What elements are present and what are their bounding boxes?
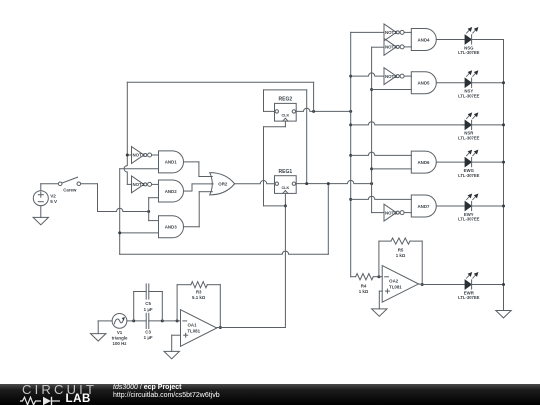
svg-text:C3: C3	[145, 329, 151, 334]
wire OR2 output to REG1 D	[235, 180, 275, 183]
wire Q1 to AND6 input B	[372, 168, 412, 170]
svg-text:R3: R3	[196, 290, 202, 295]
inverter NOT5	[384, 68, 411, 85]
wire Q1 feedback bottom run	[120, 184, 329, 255]
resistor R3 feedback	[177, 282, 220, 328]
OR gate OR2	[210, 173, 235, 195]
footer bar	[0, 384, 540, 405]
resistor R4	[356, 274, 379, 294]
node rail row3	[502, 123, 505, 126]
wire Q1 feedback left bus to AND1/AND3 inputs	[120, 169, 159, 255]
svg-text:NOT1: NOT1	[132, 153, 144, 158]
svg-text:C5: C5	[145, 301, 151, 306]
wire Q1 bus vertical	[372, 47, 384, 212]
svg-text:OR2: OR2	[218, 182, 228, 187]
svg-text:AND3: AND3	[165, 225, 178, 230]
wire CLK branch to REG2	[264, 121, 286, 206]
node C5 branch right	[161, 319, 164, 322]
wire AND3 output to OR2	[184, 192, 213, 227]
svg-text:CLK: CLK	[281, 186, 289, 190]
wire Q2 bus vertical	[351, 32, 384, 276]
AND gate AND7	[411, 195, 436, 217]
wire V1 to ground	[98, 321, 112, 334]
svg-text:100 Hz: 100 Hz	[113, 341, 128, 346]
wire Q2 to AND6 input A	[351, 152, 412, 155]
node rail row4	[502, 161, 505, 164]
svg-text:R5: R5	[398, 248, 404, 253]
svg-text:1 kΩ: 1 kΩ	[396, 253, 406, 258]
node OA1 output	[219, 326, 222, 329]
wire AND1 output to OR2	[184, 162, 213, 177]
svg-text:5.1 kΩ: 5.1 kΩ	[192, 295, 206, 300]
wire Q2 to AND7 input A	[351, 196, 412, 199]
node C5 branch left	[132, 319, 135, 322]
LED EWY	[436, 194, 503, 222]
wire REG1 Q up to REG2 D	[264, 90, 307, 184]
wire OA2 + input to ground	[379, 291, 382, 309]
voltage source V2	[33, 184, 58, 218]
node rail row5	[502, 205, 505, 208]
wire R4 node to OA2	[379, 276, 382, 278]
voltage source V1 triangle 100 Hz	[112, 314, 128, 347]
op-amp OA2	[382, 266, 418, 303]
node R3 branch	[176, 319, 179, 322]
inverter NOT6	[384, 204, 411, 221]
register REG1	[275, 169, 297, 194]
svg-text:AND6: AND6	[418, 160, 431, 165]
wire switch output to AND2/AND3 junction	[98, 184, 149, 212]
node CLK branch	[284, 204, 287, 207]
svg-text:R4: R4	[361, 283, 367, 288]
op-amp OA1	[181, 310, 217, 347]
wire R5 feedback branch	[379, 241, 391, 277]
wire C3 to OA1 - input	[149, 320, 181, 322]
svg-text:REG2: REG2	[279, 97, 293, 103]
LED NSR	[458, 112, 503, 140]
svg-text:TL081: TL081	[187, 328, 200, 333]
svg-text:LTL-307EE: LTL-307EE	[458, 93, 480, 98]
node Q2 bus row3	[349, 123, 352, 126]
svg-text:AND4: AND4	[418, 37, 431, 42]
node REG1 Q to REG2 D riser	[305, 182, 308, 185]
CircuitLab logo text CIRCUIT	[22, 382, 97, 397]
node Q2 bus row2	[349, 75, 352, 78]
wire OA1 + input to ground	[172, 335, 181, 351]
svg-text:AND5: AND5	[418, 81, 431, 86]
wire OA2 output to LED EWR	[419, 283, 423, 286]
node Q2 bus row5	[349, 198, 352, 201]
svg-text:NOT3: NOT3	[385, 30, 397, 35]
ground at OA2	[372, 309, 387, 316]
node rail row2	[502, 81, 505, 84]
svg-text:LTL-307EE: LTL-307EE	[458, 136, 480, 141]
wire CLK REG1 vertical	[284, 193, 286, 327]
wire top bus down to REG2 Q node	[313, 82, 315, 111]
node OA2 inverting input	[377, 275, 380, 278]
inverter NOT1	[132, 147, 159, 164]
svg-text:LTL-307EE: LTL-307EE	[458, 217, 480, 222]
node Q1 bus row4	[370, 167, 373, 170]
AND gate AND6	[411, 151, 436, 173]
svg-text:CLK: CLK	[281, 114, 289, 118]
svg-text:triangle: triangle	[112, 336, 128, 341]
node Q2 bus at NOT1 input	[126, 154, 129, 157]
svg-text:1 kΩ: 1 kΩ	[359, 289, 369, 294]
wire Q2 to NSR LED	[351, 122, 465, 125]
svg-text:NOT4: NOT4	[385, 45, 397, 50]
resistor R5	[391, 238, 422, 285]
node Q1 bus row2	[370, 88, 373, 91]
svg-text:OA1: OA1	[187, 323, 197, 328]
wire AND2 output to OR2	[184, 184, 214, 191]
svg-text:1 µF: 1 µF	[144, 307, 153, 312]
wire REG2 Q output	[296, 108, 351, 111]
wire Q2 to NOT5	[351, 73, 384, 76]
LED NSG	[436, 27, 503, 55]
inverter NOT4	[384, 39, 411, 56]
AND gate AND5	[411, 72, 436, 94]
wire Q2 bus to R4	[351, 276, 356, 278]
inverter NOT2	[132, 176, 159, 193]
node REG2 Q at Q2 bus	[349, 110, 352, 113]
wire junction to AND2 input B	[149, 198, 159, 212]
svg-text:NOT5: NOT5	[385, 74, 397, 79]
wire OA1 output to CLK riser	[217, 327, 286, 329]
AND gate AND1	[159, 151, 184, 173]
wire REG1 Q output row	[296, 180, 371, 183]
CircuitLab logo resistor-diode glyph	[20, 396, 66, 405]
wire Q2 bus to NOT1/NOT2	[124, 82, 314, 184]
svg-text:OA2: OA2	[389, 279, 399, 284]
node REG1 Q to left feedback	[327, 182, 330, 185]
svg-text:V1: V1	[117, 330, 123, 335]
footer project text	[113, 384, 182, 391]
svg-text:LTL-307EE: LTL-307EE	[458, 173, 480, 178]
footer url text	[113, 392, 220, 399]
AND gate AND3	[159, 216, 184, 238]
AND gate AND4	[411, 28, 436, 50]
svg-text:AND2: AND2	[165, 189, 178, 194]
wire junction to AND3 input A	[149, 212, 159, 221]
LED NSY	[436, 70, 503, 98]
node Q2 bus row4	[349, 154, 352, 157]
wire Q1 to AND5 input B	[372, 89, 412, 91]
svg-text:LTL-307EE: LTL-307EE	[458, 50, 480, 55]
capacitor C3	[144, 313, 153, 340]
svg-text:TL081: TL081	[389, 284, 402, 289]
wire V1 to C3	[127, 320, 146, 322]
svg-text:5 V: 5 V	[50, 199, 58, 204]
svg-text:Carew: Carew	[63, 188, 77, 193]
node rail row6	[502, 283, 505, 286]
AND gate AND2	[159, 180, 184, 202]
ground at V1	[91, 334, 106, 341]
ground below V2	[33, 217, 48, 224]
svg-text:AND1: AND1	[165, 160, 178, 165]
svg-text:NOT2: NOT2	[132, 182, 144, 187]
wire LED rail	[503, 39, 505, 310]
node REG1 Q at Q1 bus	[370, 182, 373, 185]
ground LED rail	[496, 311, 511, 318]
capacitor C5 parallel branch	[134, 284, 163, 321]
LED EWR	[422, 272, 503, 300]
svg-text:1 µF: 1 µF	[144, 335, 153, 340]
svg-text:REG1: REG1	[279, 169, 293, 175]
register REG2	[275, 97, 297, 122]
svg-text:NOT6: NOT6	[385, 210, 397, 215]
svg-text:AND7: AND7	[418, 204, 431, 209]
node switch junction	[147, 210, 150, 213]
node OA2 output	[421, 283, 424, 286]
svg-text:V2: V2	[50, 194, 56, 199]
node Q1 bus to AND3 B	[118, 231, 121, 234]
inverter NOT3	[384, 24, 411, 41]
ground at OA1	[164, 351, 179, 358]
node REG2 Q / top bus	[312, 110, 315, 113]
switch SW1 Carew	[41, 177, 98, 192]
LED EWG	[436, 150, 503, 178]
svg-text:LTL-307EE: LTL-307EE	[458, 295, 480, 300]
